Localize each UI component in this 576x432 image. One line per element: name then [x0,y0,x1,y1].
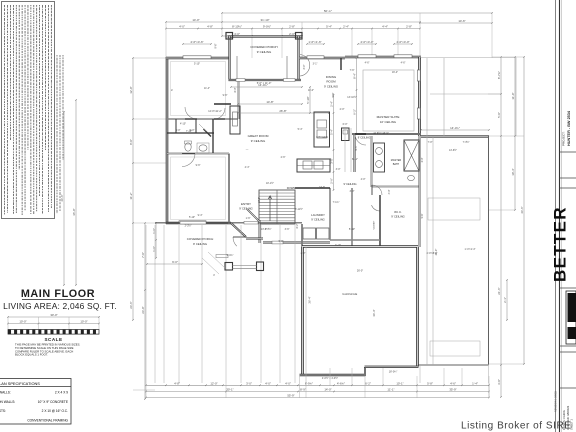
svg-text:10′-1″: 10′-1″ [396,381,403,385]
svg-text:8′-0″: 8′-0″ [234,87,237,92]
svg-text:31′-10″: 31′-10″ [261,18,270,22]
svg-text:PLAN SPECIFICATIONS: PLAN SPECIFICATIONS [0,381,40,386]
covered porch bottom - slab edge lines [146,217,489,383]
svg-text:2′-4″: 2′-4″ [343,25,349,29]
svg-text:4′-6″: 4′-6″ [450,381,456,385]
svg-text:9′ CEILING: 9′ CEILING [311,218,325,222]
window sub-dimension labels [189,62,406,220]
svg-text:11′-5½″×16′-5″: 11′-5½″×16′-5″ [373,131,389,135]
interior wall bedroom3 south [167,118,238,120]
svg-text:9′-4″: 9′-4″ [198,214,203,217]
svg-text:4′-0″×4′-0″: 4′-0″×4′-0″ [360,40,373,44]
svg-text:9′-0″: 9′-0″ [172,260,178,264]
svg-text:2 X 4 X 9: 2 X 4 X 9 [55,391,68,395]
svg-text:9′ CEILING: 9′ CEILING [324,85,338,89]
master suite south wall [352,133,421,135]
master suite inner ceiling line [352,70,421,140]
svg-text:ROOM: ROOM [326,80,336,84]
bath fixtures toilet [185,143,191,151]
svg-text:MAIN FLOOR: MAIN FLOOR [21,288,95,300]
svg-text:10′-0″: 10′-0″ [19,320,26,324]
svg-text:21′-6″: 21′-6″ [497,287,501,294]
room label DINING ROOM [324,58,341,89]
patio inner slab line [428,198,480,220]
svg-text:DINING: DINING [326,75,337,79]
dining/kitchen partition wall [340,58,342,70]
svg-text:BLOCK EQUALS 1 FOOT.: BLOCK EQUALS 1 FOOT. [15,353,48,357]
svg-text:5′-10″: 5′-10″ [306,96,310,103]
master bath shower with X [404,140,419,171]
svg-text:BETTER: BETTER [551,206,570,282]
exterior wall - left wing left side [166,56,239,224]
svg-text:8′-2″: 8′-2″ [296,223,299,228]
svg-text:14′-3¾″: 14′-3¾″ [450,126,460,130]
svg-text:2′-0″: 2′-0″ [301,252,306,255]
great room west wall [238,79,240,119]
svg-text:4′-4″: 4′-4″ [382,25,388,29]
stairs DOWN with treads [259,186,295,243]
svg-text:LIVING AREA: 2,046 SQ. FT.: LIVING AREA: 2,046 SQ. FT. [3,301,117,311]
left overall vertical dimensions [60,57,167,400]
svg-text:9′-6″: 9′-6″ [196,164,201,167]
svg-text:9′ CEILING: 9′ CEILING [343,182,356,186]
svg-text:11′-4″: 11′-4″ [204,87,210,90]
svg-text:KITCHEN: KITCHEN [316,135,328,139]
svg-text:8′-9″: 8′-9″ [300,388,306,392]
wall - bedroom2 right [228,154,230,225]
bottom extension lines [145,383,147,398]
svg-text:5′-0″: 5′-0″ [497,112,501,118]
svg-text:7′-0″: 7′-0″ [428,141,433,144]
porch corner posts [226,33,233,40]
svg-text:30′-0″: 30′-0″ [50,313,57,317]
master wing interior vertical dim chain [353,57,358,135]
svg-text:1′-6″: 1′-6″ [152,246,156,252]
svg-text:4′-0″: 4′-0″ [361,178,366,181]
svg-text:44′-6″: 44′-6″ [520,206,524,213]
svg-text:10′-1½″: 10′-1½″ [266,181,274,185]
svg-text:14′-6″: 14′-6″ [458,19,465,23]
top overall dimension line 50-3/4 [165,9,493,58]
svg-text:GARAGE: GARAGE [342,292,357,296]
svg-text:2′-2½″: 2′-2½″ [185,223,192,227]
garage walls [300,247,481,381]
svg-text:1′-4″: 1′-4″ [472,381,478,385]
porch header rect [216,255,228,258]
svg-text:16′-4″: 16′-4″ [392,71,398,74]
svg-text:ENTRY: ENTRY [241,202,251,206]
svg-text:9′ CEILING: 9′ CEILING [257,50,272,54]
plan specifications table [0,379,71,425]
svg-text:9′-6″: 9′-6″ [215,43,218,48]
svg-text:9′ CEILING: 9′ CEILING [239,207,253,211]
master suite door arc [355,134,366,145]
svg-text:12′-0″: 12′-0″ [129,86,133,93]
svg-text:12′-0″: 12′-0″ [210,381,217,385]
svg-text:5′-4″: 5′-4″ [330,129,334,135]
bottom dimension row 2 [146,391,489,393]
svg-text:3′-0″: 3′-0″ [421,157,424,162]
svg-text:26′-8″: 26′-8″ [279,109,286,113]
bath sink [199,145,207,151]
svg-text:11′-0″: 11′-0″ [511,92,515,99]
svg-text:MASTER: MASTER [391,159,402,162]
svg-text:CONVENTIONAL FRAMING: CONVENTIONAL FRAMING [27,418,68,422]
svg-text:3′-0″: 3′-0″ [336,168,341,171]
porch recess jamb lines [236,56,238,79]
great room interior dimension line [238,103,302,105]
garage bottom wall left segment [300,374,366,376]
svg-text:4′-0″×8′-0″: 4′-0″×8′-0″ [427,252,438,255]
svg-text:5′-4″: 5′-4″ [298,128,303,131]
bath angled door [204,129,212,137]
bedroom2 inner carpet line [171,157,226,220]
title block dividers [560,151,576,153]
svg-text:LAUNDRY: LAUNDRY [311,213,325,217]
svg-text:7′-6″: 7′-6″ [350,69,355,72]
svg-text:9′-0½″: 9′-0½″ [263,25,271,29]
svg-text:9′ CEILING: 9′ CEILING [391,215,405,219]
svg-text:13′-0″: 13′-0″ [261,228,267,231]
svg-text:3′-0″: 3′-0″ [246,381,252,385]
svg-text:3′-11½″: 3′-11½″ [295,207,303,211]
svg-text:8′-10½″: 8′-10½″ [232,25,242,29]
svg-text:3′-0″: 3′-0″ [350,190,355,193]
svg-text:7′-1¾″: 7′-1¾″ [333,201,340,204]
svg-text:1′-4″×1′-4″: 1′-4″×1′-4″ [465,248,476,251]
svg-text:5′-9″: 5′-9″ [279,240,284,243]
entry front door arc [300,55,310,77]
svg-text:30′-1″: 30′-1″ [226,388,233,392]
svg-text:GREAT ROOM: GREAT ROOM [248,134,269,138]
svg-text:36′-4″: 36′-4″ [308,296,312,303]
room label WIC [330,188,405,247]
svg-text:11′-1″: 11′-1″ [387,388,394,392]
garage bottom step [364,367,366,376]
svg-text:5′-10″: 5′-10″ [349,228,355,231]
kitchen counter with sink [297,159,330,172]
svg-text:4′-0″: 4′-0″ [179,25,185,29]
bath door arc [372,185,382,195]
svg-text:9′ CEILING: 9′ CEILING [358,137,371,140]
svg-text:5′-6″: 5′-6″ [421,213,424,218]
svg-text:3′-0″: 3′-0″ [497,379,501,385]
hall wall segment [214,103,231,105]
svg-text:36′-4″: 36′-4″ [372,309,376,316]
laundry washer dryer [303,228,316,239]
svg-text:4′-10″: 4′-10″ [180,123,186,126]
svg-text:2′-1″: 2′-1″ [503,297,507,303]
svg-text:24′-0″: 24′-0″ [141,306,145,313]
scale bar blocks [8,330,99,335]
svg-text:1′-6″: 1′-6″ [152,228,156,234]
closet partition walls [175,119,177,133]
svg-text:BATH: BATH [393,163,400,166]
svg-text:6′-2″: 6′-2″ [365,381,371,385]
garage bottom wall right segment [365,366,419,368]
small vertical dim labels inside plan [171,87,424,228]
svg-text:4′-0″: 4′-0″ [285,381,291,385]
svg-text:55′-9″: 55′-9″ [287,394,294,398]
svg-text:4′-8″: 4′-8″ [174,381,180,385]
title block border [559,0,561,432]
exterior wall - master wing top with windows [345,56,421,59]
stair side walls [259,220,261,243]
svg-text:10′-0″: 10′-0″ [258,197,261,203]
svg-text:4′-0″: 4′-0″ [176,129,181,132]
svg-text:EXTERIOR WALLS:: EXTERIOR WALLS: [0,391,11,395]
room label GREAT ROOM [237,100,330,151]
svg-text:10′-0″: 10′-0″ [80,320,87,324]
misc interior dimension marks center [176,69,476,255]
top dimension row 3 [166,28,420,30]
svg-text:2′-8″: 2′-8″ [406,25,412,29]
svg-text:—: — [246,148,249,151]
svg-text:HUNTER - BW 2534: HUNTER - BW 2534 [567,110,571,146]
svg-text:8′-11″: 8′-11″ [352,158,358,161]
fireplace on great room west wall [214,104,240,134]
covered patio bottom edge [418,364,489,366]
bedroom3 inner carpet line [171,62,226,116]
top dimension row 4 window dims [222,35,302,37]
svg-text:5′-4″: 5′-4″ [326,25,332,29]
svg-text:14′-0¾″: 14′-0¾″ [258,83,268,87]
svg-text:REVISION 1 3/8/23: REVISION 1 3/8/23 [555,391,558,412]
bath door opening arcs bedroom3 [185,107,197,119]
bottom dimension row 3 overall [146,397,489,399]
svg-text:4′-0″: 4′-0″ [388,189,391,194]
scale bar dimension 30-0 [7,313,100,357]
pantry cabinet [342,128,357,186]
svg-text:5′-8″: 5′-8″ [427,381,433,385]
svg-text:18′-0¾″: 18′-0¾″ [389,371,398,374]
porch bottom dim line [231,86,302,88]
general notes block (rotated fine print) [2,2,64,219]
wic walls [379,195,381,247]
scale bar dimension 10-0 row [8,323,99,325]
svg-text:6′-4″: 6′-4″ [355,145,358,150]
svg-text:CLOSET: CLOSET [374,220,376,229]
svg-text:2′-4″: 2′-4″ [330,101,334,107]
covered porch top outline walls [215,33,310,88]
bottom dimension row 1 [145,368,490,398]
wall - bedroom3 right / porch left lower [229,58,231,81]
entry interior diagonal wall [247,209,260,222]
svg-text:8′-4″: 8′-4″ [353,73,357,79]
entry chamfer wall and door [231,223,246,237]
svg-text:6′-2″: 6′-2″ [353,109,357,115]
svg-text:3′-6″: 3′-6″ [285,228,290,231]
svg-text:4′-4″: 4′-4″ [245,166,250,169]
corridor wall kitchen to master [354,135,356,172]
svg-text:COVERED PORCH: COVERED PORCH [187,237,214,241]
svg-text:7′-10″: 7′-10″ [335,244,341,247]
svg-text:DOWN: DOWN [287,186,296,190]
roof overhang lines right wing [420,57,516,59]
title MAIN FLOOR [3,288,117,311]
svg-text:PROJECT:: PROJECT: [562,131,566,146]
svg-text:9′ CEILING: 9′ CEILING [193,242,207,246]
svg-text:8′-0″: 8′-0″ [129,139,133,145]
svg-text:2′-8″: 2′-8″ [289,25,295,29]
wic door arc [372,205,381,211]
svg-text:11′-0″: 11′-0″ [308,89,314,92]
svg-text:4′-6″×4′-6″: 4′-6″×4′-6″ [190,40,203,44]
svg-text:MASTER SUITE: MASTER SUITE [377,115,400,119]
bedroom2 door arc [182,154,195,167]
svg-text:2′-6″: 2′-6″ [330,178,334,184]
svg-text:14′-0″: 14′-0″ [324,388,331,392]
svg-text:14′-0″: 14′-0″ [319,186,325,189]
porch columns bottom [225,263,233,271]
svg-text:5′-10″: 5′-10″ [189,216,195,219]
sheet edge line [551,0,576,432]
svg-text:12′-0″×11′-2″: 12′-0″×11′-2″ [208,110,222,113]
svg-text:4′-0″: 4′-0″ [265,381,271,385]
covered patio top wall [418,58,516,366]
svg-text:4′-6¾″: 4′-6¾″ [337,381,345,385]
svg-text:3′-0″: 3′-0″ [303,64,306,69]
svg-text:9′-0¾″: 9′-0¾″ [227,254,234,257]
porch rear wall with openings [229,79,302,81]
svg-text:4′-0″×4′-0″: 4′-0″×4′-0″ [396,40,409,44]
watermark Listing Broker of SIR [461,421,571,432]
svg-text:2 X 10 @ 16″ O.C.: 2 X 10 @ 16″ O.C. [42,409,68,413]
exterior wall - left wing top with window [166,57,230,60]
room label LAUNDRY [295,188,330,247]
kitchen island [297,112,330,172]
top dimension row 2 [166,21,420,23]
svg-text:1′-6″×1′-6″: 1′-6″×1′-6″ [308,40,321,44]
room label ENTRY [231,202,330,246]
kitchen interior vertical dim line [306,86,334,191]
svg-text:7′-3½″: 7′-3½″ [463,140,470,144]
svg-text:FOUNDATION WALLS:: FOUNDATION WALLS: [0,400,15,404]
svg-text:SCALE: SCALE [44,337,62,342]
svg-text:9′-6″: 9′-6″ [223,94,228,97]
svg-text:35′-9″: 35′-9″ [449,388,456,392]
svg-text:2′-0″: 2′-0″ [340,108,345,111]
svg-text:Listing Broker of SIRE: Listing Broker of SIRE [461,421,571,432]
svg-text:4′-6″: 4′-6″ [401,62,406,65]
svg-text:5′-0″: 5′-0″ [190,129,195,132]
patio slab rect lower [430,341,480,356]
svg-text:14′-6½″: 14′-6½″ [449,148,457,152]
svg-text:11′-2″: 11′-2″ [129,192,133,199]
master toilet [408,175,415,180]
svg-text:4′-6″: 4′-6″ [365,62,370,65]
master bath walls [355,134,420,247]
svg-text:W.I.C.: W.I.C. [394,210,402,214]
exterior wall - front wall right of porch with window [299,55,421,136]
right vertical dimension chain [488,56,525,398]
porch beam between columns [233,264,257,266]
svg-text:50′-¾″: 50′-¾″ [324,9,332,13]
svg-text:14′-0″: 14′-0″ [192,18,199,22]
interior wall hall/bath [167,132,214,134]
svg-text:24′-6″: 24′-6″ [129,301,133,308]
svg-text:9′-6″: 9′-6″ [332,92,335,97]
logo barcode block [566,291,576,344]
walk diagonal lines [208,252,225,268]
svg-text:14′-8″: 14′-8″ [266,100,273,104]
svg-text:8′-7¾″: 8′-7¾″ [497,71,501,79]
master bath double vanity [374,143,385,172]
svg-text:FLOOR JOISTS:: FLOOR JOISTS: [0,409,6,413]
svg-text:3′-1″: 3′-1″ [313,63,318,66]
svg-text:COVERED PORCH: COVERED PORCH [250,45,277,49]
svg-text:5′-10″: 5′-10″ [194,63,200,66]
top extension lines [221,13,223,36]
svg-text:10′ CEILING: 10′ CEILING [380,120,397,124]
left inner vertical dimension chain [132,58,134,320]
svg-text:4′-8″: 4′-8″ [207,25,213,29]
wall jog to great room west wall [229,79,239,81]
svg-text:1′-6″: 1′-6″ [246,217,251,220]
svg-text:2′-6″: 2′-6″ [281,156,286,159]
exterior wall - left wing bottom (bedroom 2) with window [166,222,231,225]
svg-text:44′-6″: 44′-6″ [60,194,64,201]
svg-text:6′-0″: 6′-0″ [343,123,348,126]
rear wall entry to laundry [246,238,263,240]
svg-text:36′-0″: 36′-0″ [72,208,76,215]
covered patio right wall [488,136,490,365]
svg-text:13′-10½″: 13′-10½″ [347,95,357,99]
svg-text:10″ X 9″ CONCRETE: 10″ X 9″ CONCRETE [38,400,68,404]
svg-text:10′-4″: 10′-4″ [511,168,515,175]
svg-text:26′-0″: 26′-0″ [357,270,363,273]
exterior wall - master wing right with windows [418,57,421,136]
laundry walls [329,188,331,240]
svg-text:7′-0″: 7′-0″ [141,252,145,258]
svg-text:9′ CEILING: 9′ CEILING [251,139,266,143]
